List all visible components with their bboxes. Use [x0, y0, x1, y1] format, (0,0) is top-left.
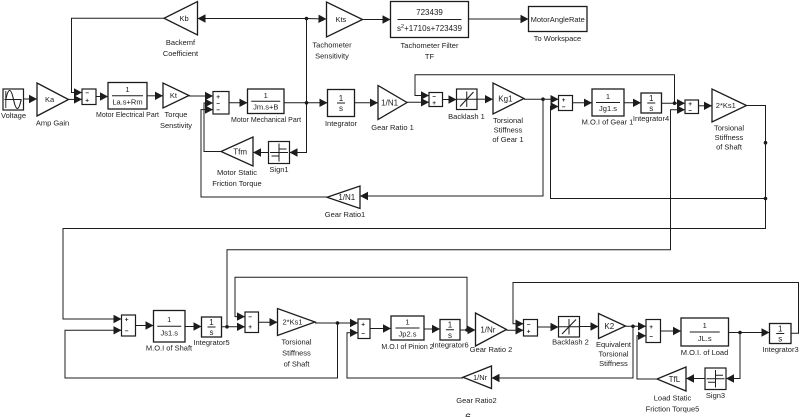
sum S5 (shaft twist sum) — [685, 100, 699, 114]
wire M.O.I. of Load to Integrator3 with junction — [729, 328, 770, 336]
wire speed junction down to Sign1 — [290, 103, 307, 157]
transfer-fn block M.O.I of Gear 1 1/(Jg1.s) — [592, 89, 624, 116]
svg-text:Equivalent: Equivalent — [596, 340, 632, 349]
svg-text:TfL: TfL — [669, 375, 681, 384]
wire Gear Ratio1 to sum S2 (gear reaction feedback) — [201, 105, 327, 197]
svg-text:Kb: Kb — [180, 14, 189, 23]
svg-text:Coefficient: Coefficient — [163, 49, 199, 58]
caption fragment (bottom) — [465, 412, 471, 417]
svg-text:TF: TF — [425, 52, 435, 61]
label Sign3 — [706, 391, 725, 400]
svg-text:1/N1: 1/N1 — [381, 98, 398, 107]
junction Integrator5 output node — [225, 325, 229, 329]
svg-text:M.O.I of Pinion 2: M.O.I of Pinion 2 — [381, 344, 433, 351]
wire Backlash 2 to K2 — [580, 322, 599, 330]
wire Ka to sum S1 — [69, 95, 83, 103]
integrator block Integrator6 1/s — [440, 320, 460, 341]
label Tachometer Sensitivity — [312, 41, 352, 61]
svg-text:Kg1: Kg1 — [498, 94, 513, 103]
svg-text:Sign3: Sign3 — [706, 391, 725, 400]
label Gear Ratio2 — [456, 396, 496, 405]
svg-text:−: − — [85, 90, 89, 97]
gain Kg1 (Torsional Stiffness of Gear 1) — [493, 83, 524, 114]
svg-text:1: 1 — [209, 318, 214, 327]
wire tachometer line to Kts — [307, 15, 327, 23]
wire Integrator4 to sum S5 with junction — [662, 99, 686, 107]
svg-text:Integrator6: Integrator6 — [432, 341, 468, 350]
svg-text:of Gear 1: of Gear 1 — [492, 135, 523, 144]
label Backemf Coefficient — [163, 38, 199, 58]
svg-text:2*Ks1: 2*Ks1 — [716, 101, 736, 110]
wire Motor Electrical Part to Kt — [147, 92, 163, 100]
svg-text:Friction Torque: Friction Torque — [212, 179, 261, 188]
integrator block Integrator4 1/s — [641, 93, 662, 113]
label Integrator3 — [762, 345, 798, 354]
label Motor Electrical Part — [96, 112, 159, 119]
integrator block Integrator5 1/s — [202, 317, 222, 337]
wire Integrator4 feedback to sum S3 (top loop) — [415, 75, 675, 103]
gain 1/N1 (Gear Ratio 1) — [378, 86, 407, 120]
svg-text:Tachometer Filter: Tachometer Filter — [401, 41, 459, 50]
sum S3 (backlash input sum) — [429, 93, 443, 107]
wire tachometer line to Kb — [198, 14, 307, 22]
svg-text:+: + — [432, 100, 436, 107]
svg-text:Backlash 1: Backlash 1 — [448, 112, 485, 121]
label Motor Static Friction Torque — [212, 168, 261, 188]
svg-text:Ka: Ka — [45, 95, 55, 104]
svg-text:Friction Torque5: Friction Torque5 — [646, 405, 700, 414]
svg-text:s: s — [448, 331, 452, 340]
label Torsional Stiffness of Shaft (upper) — [714, 124, 744, 152]
label Integrator6 — [432, 341, 468, 350]
svg-text:+: + — [85, 97, 89, 104]
wire 2*Ks1 lower feedback down-left to sum S6 (minus) — [65, 323, 338, 378]
svg-text:1: 1 — [264, 91, 268, 100]
wire Kb feedback to sum S1 — [72, 18, 165, 97]
svg-text:Sensitivity: Sensitivity — [315, 52, 349, 61]
svg-text:MotorAngleRate: MotorAngleRate — [531, 15, 585, 24]
wire Tachometer Filter to MotorAngleRate workspace — [469, 15, 529, 23]
wire Integrator3 feedback to sum S9 (minus) — [513, 283, 799, 334]
integrator block Integrator 1/s — [328, 90, 355, 117]
transfer-fn block Tachometer Filter TF — [391, 2, 469, 38]
svg-text:−: − — [248, 314, 252, 321]
svg-text:Senstivity: Senstivity — [160, 121, 192, 130]
svg-text:M.O.I. of Load: M.O.I. of Load — [681, 348, 729, 357]
wire sum S10 to M.O.I. of Load — [661, 327, 682, 335]
svg-text:La.s+Rm: La.s+Rm — [112, 97, 142, 106]
svg-text:M.O.I of Gear 1: M.O.I of Gear 1 — [582, 118, 634, 127]
svg-text:Torsional: Torsional — [598, 350, 628, 359]
svg-text:Stiffness: Stiffness — [282, 349, 311, 358]
block Backlash 2 — [559, 317, 580, 338]
svg-text:Amp Gain: Amp Gain — [36, 119, 69, 128]
svg-text:To Workspace: To Workspace — [534, 34, 581, 43]
svg-text:1: 1 — [125, 85, 129, 94]
sum S2 (torque sum + - -) — [213, 92, 229, 115]
block Backlash 1 — [457, 89, 478, 110]
wire sum S7 to 2*Ks1 lower — [259, 318, 278, 326]
svg-text:1/Nr: 1/Nr — [473, 373, 488, 382]
gain Kt (Torque Senstivity) — [163, 83, 189, 108]
junction 2*Ks1 lower output node — [336, 321, 340, 325]
svg-text:+: + — [527, 328, 531, 335]
wire sum S6 to M.O.I of Shaft — [136, 321, 154, 329]
gain TfL (Load Static Friction Torque5) — [657, 367, 686, 391]
gain Kb (Backemf Coefficient) — [164, 2, 198, 36]
svg-text:Gear Ratio 1: Gear Ratio 1 — [371, 123, 414, 132]
wire sum S3 to Backlash 1 — [443, 95, 457, 103]
label Equivalent Torsional Stiffness — [596, 340, 632, 368]
transfer-fn block M.O.I of Pinion 2 1/(Jp2.s) — [391, 316, 424, 340]
svg-text:Sign1: Sign1 — [269, 165, 288, 174]
sum S9 (backlash 2 input sum) — [524, 320, 538, 337]
integrator block Integrator3 1/s — [770, 324, 792, 344]
junction on shaft torque vertical (upper) — [764, 141, 768, 145]
svg-text:Gear Ratio1: Gear Ratio1 — [325, 210, 365, 219]
svg-text:−: − — [649, 333, 653, 340]
wire Integrator5 to sum S7 with junction — [222, 323, 246, 331]
wire sum S9 to Backlash 2 — [538, 323, 559, 331]
svg-text:1/Nr: 1/Nr — [480, 325, 495, 334]
svg-text:1: 1 — [339, 94, 344, 103]
svg-text:Torque: Torque — [165, 110, 188, 119]
svg-text:+: + — [562, 97, 566, 104]
label Integrator4 — [633, 114, 669, 123]
wire Voltage to Ka — [24, 95, 38, 103]
svg-text:of Shaft: of Shaft — [716, 143, 743, 152]
gain Ka (Amp Gain) — [37, 83, 69, 116]
wire Integrator5 feedback up to sum S5 (minus) — [227, 106, 685, 327]
label Load Static Friction Torque5 — [646, 394, 700, 414]
label Backlash 2 — [552, 338, 589, 347]
svg-text:K2: K2 — [604, 322, 614, 331]
label Voltage — [1, 111, 26, 120]
svg-text:Motor Static: Motor Static — [217, 168, 257, 177]
svg-text:Kt: Kt — [170, 91, 178, 100]
svg-text:+: + — [125, 317, 129, 324]
block Sign1 (signum) — [269, 142, 290, 164]
gain 1/Nr (Gear Ratio2, reverse) — [463, 366, 492, 389]
svg-text:2*Ks1: 2*Ks1 — [282, 318, 302, 327]
svg-text:+: + — [248, 324, 252, 331]
wire sum S1 to Motor Electrical Part — [96, 92, 108, 100]
wire Gear Ratio2 to sum S8 (minus) — [347, 329, 463, 378]
svg-text:Motor Mechanical Part: Motor Mechanical Part — [231, 117, 301, 124]
transfer-fn block Motor Mechanical Part 1/(Jm.s+B) — [248, 89, 285, 114]
gain Tfm (Motor Static Friction Torque) — [221, 137, 253, 166]
block MotorAngleRate To Workspace — [529, 7, 588, 32]
svg-text:1: 1 — [649, 94, 654, 103]
svg-text:1: 1 — [448, 321, 453, 330]
svg-text:+: + — [649, 324, 653, 331]
svg-text:s: s — [649, 104, 653, 113]
label Torsional Stiffness of Gear 1 — [492, 116, 523, 144]
svg-text:Load Static: Load Static — [654, 394, 692, 403]
svg-text:Integrator4: Integrator4 — [633, 114, 669, 123]
wire load speed down to Sign3 — [726, 333, 740, 383]
svg-text:s: s — [339, 104, 343, 113]
wire Motor Mechanical Part to Integrator with junction — [284, 99, 328, 107]
svg-text:Voltage: Voltage — [1, 111, 26, 120]
wire Sign1 to Tfm — [253, 148, 269, 156]
svg-text:Torsional: Torsional — [714, 124, 744, 133]
transfer-fn block Motor Electrical Part 1/(La.s+Rm) — [108, 83, 147, 110]
label M.O.I of Gear 1 — [582, 118, 634, 127]
junction Integrator4 output node — [673, 101, 677, 105]
svg-text:1: 1 — [405, 318, 409, 327]
junction K2 output node — [631, 325, 635, 329]
wire K2 output down to Gear Ratio2 — [492, 326, 634, 382]
wire Tfm to sum S2 (friction feedback) — [204, 99, 221, 152]
wire shaft torque feedback to sum S4 (minus) — [551, 102, 766, 198]
svg-text:Js1.s: Js1.s — [160, 328, 178, 337]
wire sum S2 to Motor Mechanical Part — [229, 99, 248, 107]
transfer-fn block M.O.I of Shaft 1/(Js1.s) — [154, 311, 186, 343]
svg-text:−: − — [562, 104, 566, 111]
gain 1/Nr (Gear Ratio 2) — [476, 313, 507, 346]
gain Kts (Tachometer Sensitivity) — [327, 2, 363, 37]
label Amp Gain — [36, 119, 69, 128]
wire TfL to sum S10 (load friction feedback) — [637, 332, 657, 379]
svg-text:s2+1710s+723439: s2+1710s+723439 — [397, 24, 462, 33]
junction Integrator6 output node — [465, 328, 469, 332]
svg-text:Tfm: Tfm — [233, 147, 247, 156]
label To Workspace — [534, 34, 581, 43]
label Integrator — [325, 119, 358, 128]
wire Kg1 to sum S4 with junction — [524, 95, 559, 103]
wire Integrator6 to Gear Ratio 2 with junction — [460, 326, 476, 334]
wire Sign3 to TfL — [686, 374, 705, 382]
svg-text:Integrator: Integrator — [325, 119, 358, 128]
svg-text:−: − — [216, 107, 220, 114]
label Backlash 1 — [448, 112, 485, 121]
svg-text:Kts: Kts — [335, 15, 346, 24]
wire M.O.I of Pinion 2 to Integrator6 — [424, 325, 440, 333]
gain 2*Ks1 (Torsional Stiffness of Shaft, lower) — [278, 309, 316, 336]
svg-text:Jg1.s: Jg1.s — [599, 104, 617, 113]
sum S8 (pinion sum) — [358, 319, 370, 339]
svg-text:6: 6 — [465, 412, 471, 417]
svg-text:s: s — [210, 328, 214, 337]
svg-text:Stiffness: Stiffness — [599, 359, 628, 368]
wire K2 to sum S10 with junction — [626, 322, 647, 330]
transfer-fn block M.O.I. of Load 1/(JL.s) — [681, 318, 729, 346]
wire Integrator to Gear Ratio 1 — [355, 99, 379, 107]
svg-text:Torsional: Torsional — [281, 338, 311, 347]
label Integrator5 — [193, 338, 229, 347]
svg-text:Jm.s+B: Jm.s+B — [253, 103, 278, 112]
svg-text:Backlash 2: Backlash 2 — [552, 338, 589, 347]
svg-text:−: − — [125, 328, 129, 335]
svg-text:Backemf: Backemf — [166, 38, 196, 47]
wire 2*Ks1 lower to sum S8 with junction — [315, 319, 358, 327]
svg-text:−: − — [527, 321, 531, 328]
junction load speed node — [738, 331, 742, 335]
gain 2*Ks1 (Torsional Stiffness of Shaft, upper) — [712, 89, 747, 122]
wire speed junction up to tachometer line — [306, 19, 308, 103]
svg-text:M.O.I of Shaft: M.O.I of Shaft — [146, 344, 193, 353]
svg-text:1: 1 — [778, 324, 783, 333]
svg-text:Tachometer: Tachometer — [312, 41, 352, 50]
svg-text:Torsional: Torsional — [493, 116, 523, 125]
wire Gear Ratio 2 to sum S9 — [507, 326, 524, 334]
block Sign3 (signum) — [705, 368, 726, 390]
wire Backlash 1 to Kg1 — [477, 95, 493, 103]
svg-text:Integrator5: Integrator5 — [193, 338, 229, 347]
wire Kg1 junction down to Gear Ratio1 — [360, 99, 543, 200]
junction shaft torque branch node — [764, 197, 768, 201]
svg-text:s: s — [778, 335, 782, 344]
wire Kts to Tachometer Filter — [363, 15, 391, 23]
svg-text:JL.s: JL.s — [698, 334, 712, 343]
junction Kg1 output node — [541, 97, 545, 101]
svg-text:Stiffness: Stiffness — [494, 126, 523, 135]
svg-text:−: − — [361, 330, 365, 337]
wire M.O.I of Gear 1 to Integrator4 — [624, 99, 641, 107]
wire M.O.I of Shaft to Integrator5 — [185, 322, 202, 330]
svg-text:of Shaft: of Shaft — [284, 360, 311, 369]
label Gear Ratio 2 — [470, 345, 513, 354]
svg-text:Stiffness: Stiffness — [715, 133, 744, 142]
svg-text:Gear Ratio 2: Gear Ratio 2 — [470, 345, 513, 354]
label Gear Ratio 1 — [371, 123, 414, 132]
label Tachometer Filter TF — [401, 41, 459, 61]
svg-text:Integrator3: Integrator3 — [762, 345, 798, 354]
label Torque Senstivity — [160, 110, 192, 130]
svg-text:Jp2.s: Jp2.s — [399, 329, 417, 338]
label M.O.I. of Load — [681, 348, 729, 357]
wire Integrator6 feedback to sum S7 (minus) — [235, 277, 467, 330]
svg-text:1: 1 — [703, 321, 707, 330]
sum S1 (voltage - backemf) — [82, 89, 96, 105]
gain 1/N1 (Gear Ratio1, reverse) — [327, 186, 360, 209]
wire Gear Ratio 1 to sum S3 — [407, 98, 429, 106]
sum S10 (load torque sum) — [646, 320, 661, 343]
svg-text:Gear Ratio2: Gear Ratio2 — [456, 396, 496, 405]
label M.O.I of Pinion 2 — [381, 344, 433, 351]
junction motor speed node — [305, 101, 309, 105]
svg-text:1: 1 — [167, 315, 171, 324]
sum S4 (gear 1 torque sum) — [559, 96, 573, 112]
sum S6 (shaft inertia sum) — [122, 315, 136, 336]
source block Voltage (sine wave) — [3, 89, 24, 110]
wire Kt to sum S2 — [189, 92, 213, 100]
svg-text:−: − — [688, 107, 692, 114]
wire sum S8 to M.O.I of Pinion 2 — [370, 324, 391, 332]
label Torsional Stiffness of Shaft (lower) — [281, 338, 311, 369]
svg-text:1/N1: 1/N1 — [338, 193, 355, 202]
svg-text:Motor Electrical Part: Motor Electrical Part — [96, 112, 159, 119]
svg-text:723439: 723439 — [416, 8, 443, 17]
wire 2*Ks1 upper output down-left to sum S6 — [63, 106, 766, 324]
svg-text:1: 1 — [606, 92, 610, 101]
wire sum S4 to M.O.I of Gear 1 — [573, 99, 593, 107]
gain K2 (Equivalent Torsional Stiffness) — [599, 314, 626, 339]
label Sign1 — [269, 165, 288, 174]
sum S7 (shaft twist sum lower) — [245, 312, 259, 333]
junction tachometer line — [305, 17, 309, 21]
wire sum S5 to 2*Ks1 upper — [699, 102, 713, 110]
label Gear Ratio1 — [325, 210, 365, 219]
label Motor Mechanical Part — [231, 117, 301, 124]
svg-text:+: + — [361, 321, 365, 328]
label M.O.I of Shaft — [146, 344, 193, 353]
